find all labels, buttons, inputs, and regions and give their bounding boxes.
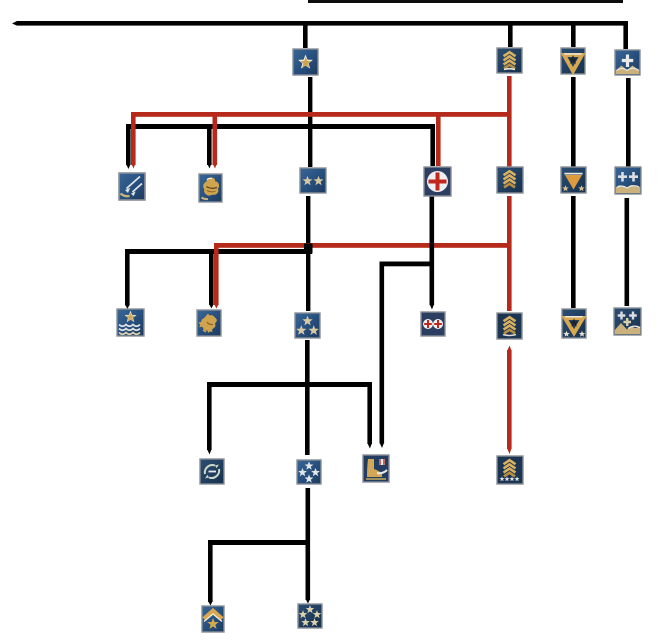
icon F3 gold V triangle with star and small stars xyxy=(562,309,586,338)
icon D3 two red cross roundels xyxy=(421,312,445,336)
icon E4 chevron stack with stars xyxy=(497,456,523,484)
wire black bus1 right corner down to D2 xyxy=(430,124,435,166)
wire tapered line tips xyxy=(125,163,434,606)
wire red bus1 drop to B2 xyxy=(213,116,218,165)
icon E2 chevron stack xyxy=(497,167,523,193)
wire red bus1 left corner down to A2 xyxy=(131,112,136,165)
wire black bus3 left corner down to B4 xyxy=(207,382,212,450)
wire drop top bus to C1 xyxy=(303,25,308,48)
icon B2 gold mailed fist xyxy=(199,174,222,202)
icon B3 gold bull xyxy=(197,310,221,336)
wire E1 to E2 red vertical xyxy=(507,76,512,167)
icon C5 five stars xyxy=(298,604,322,628)
wire black bus1 horizontal xyxy=(126,124,435,129)
wire E3 to E4 red vertical xyxy=(507,350,512,449)
icon F4 boot with wave xyxy=(363,455,389,482)
icon F1 gold V triangle with black star xyxy=(561,48,585,74)
icon C1 gold star xyxy=(293,49,318,75)
icon A3 star over waves xyxy=(117,309,144,336)
wire G1 to G2 black vertical xyxy=(626,78,631,167)
wire drop top bus to F1 xyxy=(571,25,576,47)
wire top bus horizontal xyxy=(17,21,628,26)
wire black bus3 horizontal xyxy=(207,382,372,387)
icon B5 chevron and star xyxy=(202,606,224,632)
wire black bus1 drop to B2 xyxy=(207,129,212,165)
icon G3 three crosses over mountains xyxy=(614,308,641,335)
icon C2 two gold stars xyxy=(300,168,326,193)
wire black bus4 horizontal xyxy=(208,540,307,545)
wire branch horizontal from D column to F4 drop xyxy=(380,262,434,267)
icon D2 red cross roundel xyxy=(424,167,451,196)
icon C3 three stars xyxy=(295,313,320,338)
icon E1 chevron stack xyxy=(497,48,522,73)
icon E3 chevron stack dark xyxy=(497,313,522,339)
icon B4 circular arrows xyxy=(200,459,224,484)
wire black bus4 left corner down to B5 xyxy=(208,540,213,602)
junction blob C vertical x red bus2 xyxy=(304,244,313,254)
wire E2 to E3 red vertical xyxy=(507,196,512,311)
wire branch corner vertical down to F4 xyxy=(380,262,385,444)
wire C2 to C3 vertical black xyxy=(306,196,310,311)
wire black bus3 right corner down to F4 xyxy=(367,382,372,444)
wire black bus2 horizontal xyxy=(125,249,312,254)
wire C3 to C4 vertical black xyxy=(305,340,310,455)
wire red bus1 horizontal xyxy=(131,112,509,117)
wire D2 to D3 vertical black xyxy=(430,196,435,305)
wire top bus right corner down to G1 xyxy=(623,21,628,49)
wire C4 to C5 vertical black xyxy=(306,488,311,600)
icon F2 orange triangle with stars xyxy=(561,167,586,193)
wire black bus2 drop to B3 xyxy=(209,254,214,305)
icon G1 white cross over mountains xyxy=(615,50,640,75)
wire F2 to F3 black vertical xyxy=(571,196,576,308)
wire cropped top edge line xyxy=(308,0,623,3)
wire drop top bus to E1 xyxy=(508,25,513,47)
wire black bus1 left corner down to A2 xyxy=(126,124,131,165)
wire red bus1 drop to D2 xyxy=(436,116,441,166)
icon G2 two crosses over mountains xyxy=(615,167,641,194)
wire F1 to F2 black vertical xyxy=(571,77,576,167)
wire C1 to C2 vertical black xyxy=(308,77,312,167)
wire black bus2 left corner down to A3 xyxy=(125,249,130,306)
icon A2 diagonal arrows xyxy=(119,173,145,200)
icon C4 four white stars xyxy=(297,460,321,484)
wire red bus2 left corner down to B3 xyxy=(214,243,219,305)
wire G2 to G3 black vertical xyxy=(625,198,630,306)
wire red bus2 horizontal xyxy=(214,243,509,248)
